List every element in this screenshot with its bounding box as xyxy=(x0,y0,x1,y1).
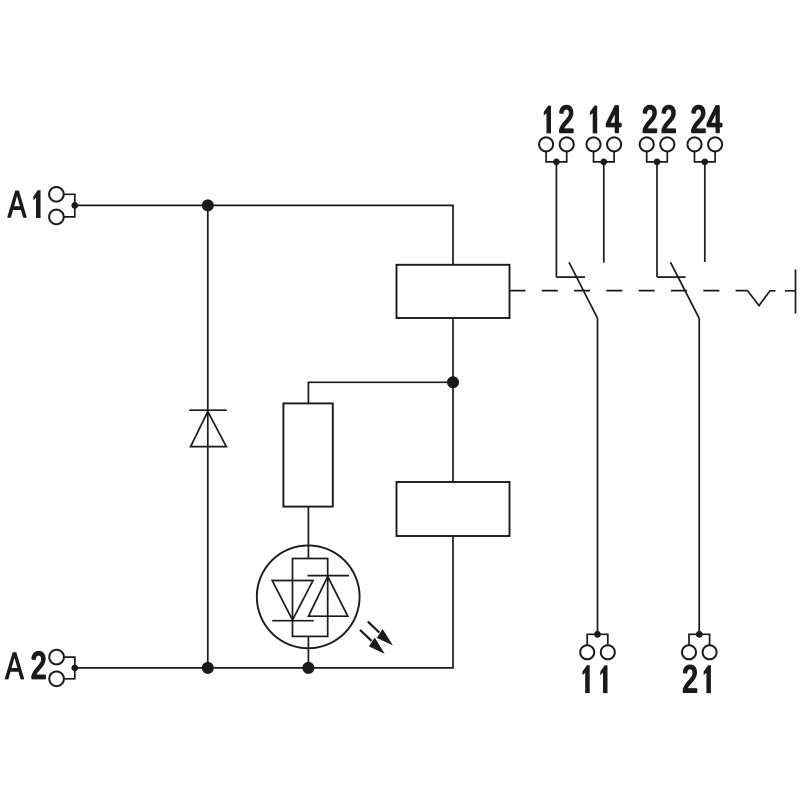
diode V1 xyxy=(189,410,226,446)
label 24 xyxy=(692,106,721,133)
label A1 xyxy=(8,190,41,218)
label 11 xyxy=(582,665,607,693)
node A1/diode junction xyxy=(202,199,214,211)
terminal 22 (double clamp) xyxy=(640,137,675,162)
wire 22 to NC contact xyxy=(656,162,658,277)
LED indicator lamp circle xyxy=(257,545,360,648)
junction dot terminal 12 xyxy=(553,159,560,166)
LED inner rectangle xyxy=(293,559,328,637)
label 12 xyxy=(544,106,573,134)
junction dot terminal A1 xyxy=(71,202,78,209)
terminal 12 (double clamp) xyxy=(539,137,574,162)
relay coil K1 second winding block xyxy=(397,482,510,536)
NC contact seat 12 xyxy=(556,276,585,278)
junction dot terminal 21 xyxy=(696,631,703,638)
LED light arrow 2 xyxy=(360,630,385,654)
wire common 21 xyxy=(698,318,700,634)
terminal 11 (double clamp) xyxy=(580,634,615,659)
LED diode right (up) xyxy=(309,577,348,617)
wire middle node to resistor R1 xyxy=(308,382,453,403)
wire 24 NO contact xyxy=(704,162,706,262)
wire 14 NO contact xyxy=(603,162,605,263)
mechanical link (dashed actuator line) xyxy=(510,290,748,292)
mechanical link end dash xyxy=(785,290,796,292)
wire coil K1 to middle node xyxy=(452,318,454,382)
contact arm 11-12/14 xyxy=(569,262,598,318)
junction dot terminal A2 xyxy=(71,665,78,672)
junction dot terminal 24 xyxy=(701,159,708,166)
label 22 xyxy=(644,106,676,133)
terminal A1 (double clamp) xyxy=(49,187,75,224)
terminal A2 (double clamp) xyxy=(49,650,75,686)
wire winding block to A2 wire xyxy=(75,536,453,668)
mechanical link V notch xyxy=(748,291,776,306)
LED diode left cathode bar xyxy=(272,620,314,622)
wire middle node to winding block xyxy=(452,382,454,482)
LED diode right cathode bar xyxy=(308,575,350,577)
junction dot terminal 14 xyxy=(600,159,607,166)
label 21 xyxy=(684,665,711,693)
terminal 21 (double clamp) xyxy=(682,634,717,659)
wire resistor R1 to LED xyxy=(307,507,309,559)
wire A1 to coil K1 xyxy=(75,205,453,264)
LED light arrow 1 xyxy=(368,622,393,646)
resistor R1 xyxy=(283,403,332,506)
wire LED to A2 node xyxy=(307,636,309,668)
node LED/A2 junction xyxy=(302,662,314,674)
wire 12 to NC contact xyxy=(555,162,557,277)
junction dot terminal 22 xyxy=(654,159,661,166)
mechanical link end bar xyxy=(795,270,797,314)
wire diode branch (A1 node down to A2 node) xyxy=(207,205,209,668)
junction dot terminal 11 xyxy=(594,631,601,638)
wire common 11 xyxy=(597,318,599,634)
LED diode left (down) xyxy=(272,581,313,621)
node middle junction xyxy=(447,376,459,388)
label 14 xyxy=(590,106,621,134)
terminal 14 (double clamp) xyxy=(587,137,622,162)
label A2 xyxy=(5,652,45,679)
contact arm 21-22/24 xyxy=(671,262,700,318)
NC contact seat 22 xyxy=(657,276,686,278)
relay coil K1 xyxy=(397,265,510,318)
terminal 24 (double clamp) xyxy=(688,137,723,162)
node A2/diode junction xyxy=(202,662,214,674)
